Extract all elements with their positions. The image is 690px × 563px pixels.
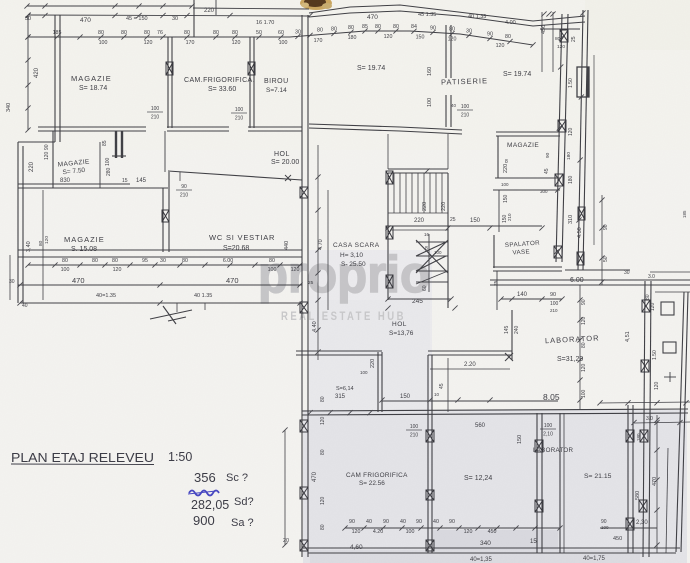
bottom wall xyxy=(302,547,680,549)
patiserie inner wall xyxy=(445,25,447,78)
magazie 7.50 xyxy=(52,131,54,188)
WC walls xyxy=(164,131,166,172)
wall cam.frig/birou xyxy=(249,37,251,128)
watermark proprio xyxy=(258,246,430,323)
left vertical dim xyxy=(27,15,29,130)
bottom wall of top rooms xyxy=(38,126,146,128)
dimension ticks xyxy=(24,3,29,8)
left outer wall lower xyxy=(18,141,55,143)
north mark xyxy=(150,310,192,319)
left outer wall upper xyxy=(54,15,56,142)
magazie right room xyxy=(496,131,560,133)
dim under spalator xyxy=(501,298,562,300)
window block right wall xyxy=(577,67,589,97)
stain top center xyxy=(300,0,332,10)
main top dimension line xyxy=(28,31,533,45)
mid rooms xyxy=(296,350,382,352)
bottom block left wall xyxy=(301,358,303,557)
laborator top wall xyxy=(490,279,690,281)
scan shading xyxy=(309,250,432,410)
left block bottom wall xyxy=(18,249,302,251)
stair cross xyxy=(416,241,448,243)
right verticals xyxy=(601,195,603,285)
corridor right wall xyxy=(496,271,498,310)
bottom block top wall xyxy=(302,409,688,411)
spalator vase xyxy=(493,235,495,268)
center main wall xyxy=(301,15,303,358)
patiserie bottom wall xyxy=(309,124,462,130)
vertical to top edge xyxy=(193,0,195,37)
wall magazie/cam.frig xyxy=(167,37,169,128)
hand notes xyxy=(11,450,254,529)
bottom block inner walls xyxy=(427,355,429,553)
stairwell xyxy=(387,134,389,169)
top outer dimension lines xyxy=(27,5,192,7)
right protrusion xyxy=(565,269,630,271)
patiserie right wall xyxy=(556,14,562,262)
column chimney xyxy=(115,131,117,158)
